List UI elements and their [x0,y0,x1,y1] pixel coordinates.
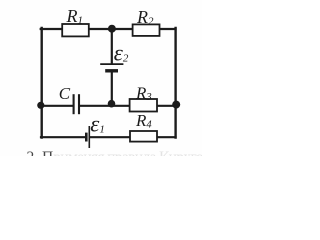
wire bottom right (battery E1 to R4 to right wire) [90,136,176,138]
node left middle [37,102,44,109]
battery E1 long thin plate [88,126,90,148]
node middle (junction of E2 branch and middle wire) [108,100,116,108]
wire middle horizontal right (capacitor to R3 to right wire) [80,105,176,107]
battery E1 short thick plate [85,133,88,142]
node top middle [108,25,116,33]
wire middle horizontal left (to capacitor) [41,105,73,107]
wire bottom left (to battery E1) [41,136,85,138]
node right middle [172,101,180,109]
resistor R4 [130,131,157,142]
wire middle vertical upper (top node to battery E2) [111,29,113,63]
svg-text:2. Применяя правила Кирхгофа,: 2. Применяя правила Кирхгофа, [27,149,203,156]
resistor R1 [62,24,89,36]
svg-text:C: C [59,84,71,103]
resistor R2 [133,24,160,36]
capacitor C left plate [73,94,75,114]
battery E2 long plate [100,63,123,65]
wire right vertical [174,28,176,138]
wire left vertical [41,28,43,138]
capacitor C right plate [78,94,80,114]
wire top horizontal [41,28,176,30]
wire middle vertical lower (battery E2 to middle node) [111,72,113,105]
resistor R3 [130,99,157,112]
battery E2 short thick plate [105,69,118,72]
